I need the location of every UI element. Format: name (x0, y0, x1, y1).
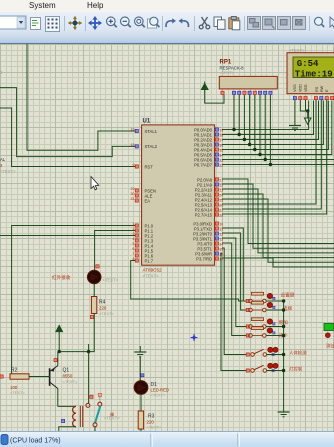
wire P1.1 net to LED1 chain (95, 231, 136, 271)
wire P2.2 staircase to right edge (222, 189, 334, 253)
icon new sheet (31, 18, 41, 30)
icon zoom in (107, 17, 117, 27)
icon cut scissors (199, 17, 209, 29)
wire RP1 pin3 drop (238, 95, 240, 135)
toolbar (0, 12, 334, 44)
wire LCD VDD/VEE to power (300, 100, 307, 111)
node junction RP1/P0.4 (253, 148, 256, 151)
svg-text:测试: 测试 (326, 343, 334, 350)
LCD module LM016L body (287, 48, 334, 94)
svg-text:RS: RS (315, 86, 319, 92)
wire XTAL2 net: from left edge (0, 88, 135, 157)
photodiode LED1 (87, 270, 118, 284)
ground symbol above D1 (134, 346, 146, 357)
separator (194, 16, 195, 31)
U1 right pin state boxes and numbers (215, 128, 223, 262)
button B2 选择键 (246, 301, 292, 312)
svg-text:9: 9 (133, 163, 135, 167)
icon zoom all (135, 17, 145, 27)
icon undo (166, 18, 176, 27)
U1 left pin labels (145, 129, 158, 263)
separator (85, 16, 86, 31)
svg-text:R2: R2 (11, 368, 18, 374)
wire RP1 pin2 drop (233, 95, 235, 130)
wire P0.2 bus line (222, 101, 319, 140)
node junction RP1/P0.1 (238, 133, 241, 136)
LCD pin name labels (rotated) (293, 84, 329, 92)
wire LCD VSS to ground (294, 100, 296, 126)
icon origin crosshair (68, 16, 82, 30)
svg-text:G:54: G:54 (297, 59, 319, 69)
icon block copy (248, 17, 261, 30)
svg-text:6: 6 (133, 247, 135, 251)
wire button common rail (283, 301, 285, 412)
icon redo (179, 18, 189, 27)
svg-text:P1.7: P1.7 (145, 258, 154, 263)
op-amp U1 body AT89C52 (142, 119, 215, 279)
icon pointer (clipped) (330, 17, 334, 28)
wire P3.5 to switch B5 (222, 248, 246, 355)
svg-text:人体检测: 人体检测 (289, 350, 307, 357)
svg-text:VEE: VEE (304, 84, 308, 92)
wire RP1 pin5 drop (249, 95, 251, 145)
svg-text:设置键: 设置键 (281, 292, 295, 299)
wire P0.6 bus line (222, 159, 334, 161)
wire LED1 to R4 (93, 284, 95, 297)
svg-text:8: 8 (133, 257, 135, 261)
resistor R2 (10, 368, 29, 396)
wire RP1 pin7 drop (259, 95, 261, 155)
node junction RP1/P0.6 (264, 158, 267, 161)
wire stub above relay contact junction (88, 344, 90, 352)
wire RP1 pin8 drop (264, 95, 266, 160)
svg-text:8550: 8550 (63, 374, 73, 379)
separator (309, 16, 310, 31)
LED D1 LED-RED (134, 381, 169, 398)
wire LCD E to P2.7 (222, 100, 327, 214)
svg-text:19: 19 (131, 128, 135, 132)
wire RST net: from left edge (0, 108, 135, 167)
icon grid toggle (46, 17, 60, 32)
svg-text:29: 29 (131, 187, 135, 191)
icon zoom out (121, 17, 131, 27)
separator (244, 16, 245, 31)
status bar (0, 431, 334, 447)
D1 top state box (141, 374, 144, 377)
RP1 pins 2-9 state boxes (232, 91, 272, 94)
svg-text:RW: RW (320, 85, 324, 92)
red indicator at right edge (325, 333, 330, 338)
switch B5 人体检测 (246, 347, 307, 356)
wire P0.0 bus line (222, 101, 309, 130)
node junction VDD (306, 109, 309, 112)
R2 left state box (0, 375, 3, 378)
svg-text:3: 3 (133, 232, 135, 236)
wire P0.3 bus line (222, 101, 323, 145)
icon block move (263, 17, 276, 30)
wire ground to D1 (139, 357, 141, 381)
node junction RP1/P0.7 (269, 163, 272, 166)
node junction RP1/P0.3 (248, 143, 251, 146)
separator (64, 16, 65, 31)
svg-text:P0.7/AD7: P0.7/AD7 (194, 162, 213, 167)
LCD pin state boxes (293, 97, 333, 100)
relay RL1 coil (73, 406, 83, 427)
LED1 state box (96, 265, 99, 268)
relay switch contacts (86, 397, 120, 432)
resistor R4 (91, 297, 114, 317)
icon copy (214, 17, 225, 29)
node junction RP1/P0.0 (232, 128, 235, 131)
wire P3.2 to button B2 (222, 233, 246, 310)
wire XTAL1 net: vertical from top edge (27, 44, 135, 150)
wire Q1 emitter to relay coil (58, 405, 76, 407)
svg-text:AT89C52: AT89C52 (143, 268, 163, 273)
wire P3.1 to button B1 (222, 228, 246, 301)
wire P3.3 to button B3 (222, 238, 246, 327)
svg-text:31: 31 (131, 197, 135, 201)
wire R3 bottom (140, 429, 142, 432)
svg-text:<TEXT>: <TEXT> (99, 311, 115, 316)
wire P1.2 net from left edge (0, 235, 135, 237)
node junction B6 rail (282, 369, 285, 372)
wire P1.0 net to R2/Q1 base (10, 226, 135, 377)
svg-text:AL: AL (0, 157, 6, 162)
wire P3.7 staircase to right edge (222, 258, 334, 267)
wire P2.0 staircase to right edge (222, 179, 334, 244)
relay contact NO state box (98, 393, 101, 396)
svg-text:<TEXT>: <TEXT> (0, 169, 16, 174)
wire P2.4 staircase to right edge (222, 199, 334, 262)
power arrow down at LCD (304, 111, 311, 124)
wire P2.1 staircase to right edge (222, 184, 334, 248)
separator (162, 16, 163, 31)
svg-text:Time:19: Time:19 (295, 69, 333, 79)
wire relay coil bottom (59, 427, 76, 432)
wire D1 to R3 (140, 394, 142, 411)
RP1 pin 1 state box (221, 91, 224, 94)
svg-text:<TEXT>: <TEXT> (143, 274, 160, 279)
R4 bottom state box (90, 315, 93, 318)
svg-text:1: 1 (133, 222, 135, 226)
node junction B5 rail (282, 353, 285, 356)
ground for button rail (278, 412, 290, 417)
svg-text:<TEXT>: <TEXT> (220, 70, 236, 75)
button B1 设置键 (246, 292, 294, 303)
node junction B3 rail (282, 325, 285, 328)
svg-text:XTAL1: XTAL1 (145, 129, 158, 134)
svg-text:EA: EA (145, 198, 151, 203)
icon block delete (293, 17, 306, 30)
svg-text:2: 2 (133, 227, 135, 231)
svg-text:(CPU load 17%): (CPU load 17%) (10, 438, 61, 445)
node junction B2 rail (282, 308, 285, 311)
button B3 增 (246, 318, 288, 329)
relay coil blue state box (62, 419, 65, 422)
node junction B1 rail (282, 299, 285, 302)
wire P0.4 bus line (222, 101, 328, 150)
svg-text:<TEXT>: <TEXT> (103, 278, 119, 283)
switch B6 灯控制 (246, 363, 303, 372)
Q1 collector state box (54, 359, 57, 362)
svg-text:XTAL2: XTAL2 (145, 144, 158, 149)
wire P0.7 bus line (222, 164, 334, 166)
power arrow VCC at Q1 (56, 325, 63, 351)
icon zoom page (315, 17, 325, 27)
wire P2.3 staircase to right edge (222, 194, 334, 258)
node junction supply/Q1 (58, 350, 61, 353)
power arrow VCC for RP1 (201, 82, 224, 104)
node junction B4 rail (282, 334, 285, 337)
svg-text:10: 10 (219, 223, 223, 227)
svg-text:<TEXT>: <TEXT> (151, 393, 167, 398)
wire RP1 pin9 drop (269, 95, 271, 165)
wire LCD RS to P2.5 (222, 100, 316, 204)
wire LCD RW to P2.6 (222, 100, 321, 209)
svg-text:30: 30 (131, 192, 135, 196)
icon zoom area (148, 17, 160, 28)
svg-text:U1: U1 (143, 119, 151, 125)
resistor pack RP1 RESPACK-8 (219, 60, 277, 89)
wire RP1 pin4 drop (243, 95, 245, 140)
svg-text:P3.7/RD: P3.7/RD (196, 256, 212, 261)
svg-text:P2.7/A15: P2.7/A15 (195, 212, 213, 217)
wire R4 to supply rail (59, 314, 94, 352)
toolbar bottom line (0, 43, 334, 44)
U1 right pin labels (193, 127, 213, 261)
U1 left pin state boxes and numbers (131, 128, 139, 263)
svg-text:220: 220 (99, 306, 107, 311)
ground for LCD VSS (289, 126, 301, 131)
svg-text:5: 5 (133, 242, 135, 246)
wire P1.7 net to button column (131, 261, 246, 302)
icon paste (229, 17, 240, 30)
wire P3.6 to switch B6 (221, 253, 246, 371)
resistor R3 (138, 411, 162, 430)
svg-text:VSS: VSS (293, 84, 297, 92)
wire P0.5 bus line (222, 101, 332, 155)
logic probe instrument at right edge (324, 324, 334, 331)
relay contact state box (90, 395, 93, 398)
svg-text:VDD: VDD (299, 84, 303, 92)
svg-text:红外接收: 红外接收 (52, 274, 71, 281)
svg-text:<TEXT>: <TEXT> (10, 390, 26, 395)
icon block rotate (278, 17, 291, 30)
node junction supply/relay contact (87, 350, 90, 353)
wire RP1 pin6 drop (254, 95, 256, 150)
menu bar (0, 0, 334, 12)
svg-text:18: 18 (131, 143, 135, 147)
svg-text:<TEXT>: <TEXT> (147, 425, 163, 430)
wire P3.4 to button B4 (222, 243, 246, 336)
svg-text:4: 4 (133, 237, 135, 241)
wire R2 to Q1 base (29, 376, 50, 378)
button B4 减 (246, 327, 288, 339)
node junction RP1/P0.2 (243, 138, 246, 141)
blue origin marker (191, 334, 198, 341)
svg-text:7: 7 (133, 252, 135, 256)
node junction RP1/P0.5 (258, 153, 261, 156)
transistor Q1 8550 (50, 352, 78, 407)
svg-text:RST: RST (145, 164, 154, 169)
wire P0.1 bus line (222, 101, 314, 135)
combo box (0, 16, 26, 29)
mouse cursor (91, 177, 99, 190)
icon pan cross (88, 16, 102, 30)
wire supply to relay contact (88, 352, 90, 404)
svg-text:灯控制: 灯控制 (289, 366, 303, 373)
svg-text:<TEXT>: <TEXT> (63, 379, 79, 384)
